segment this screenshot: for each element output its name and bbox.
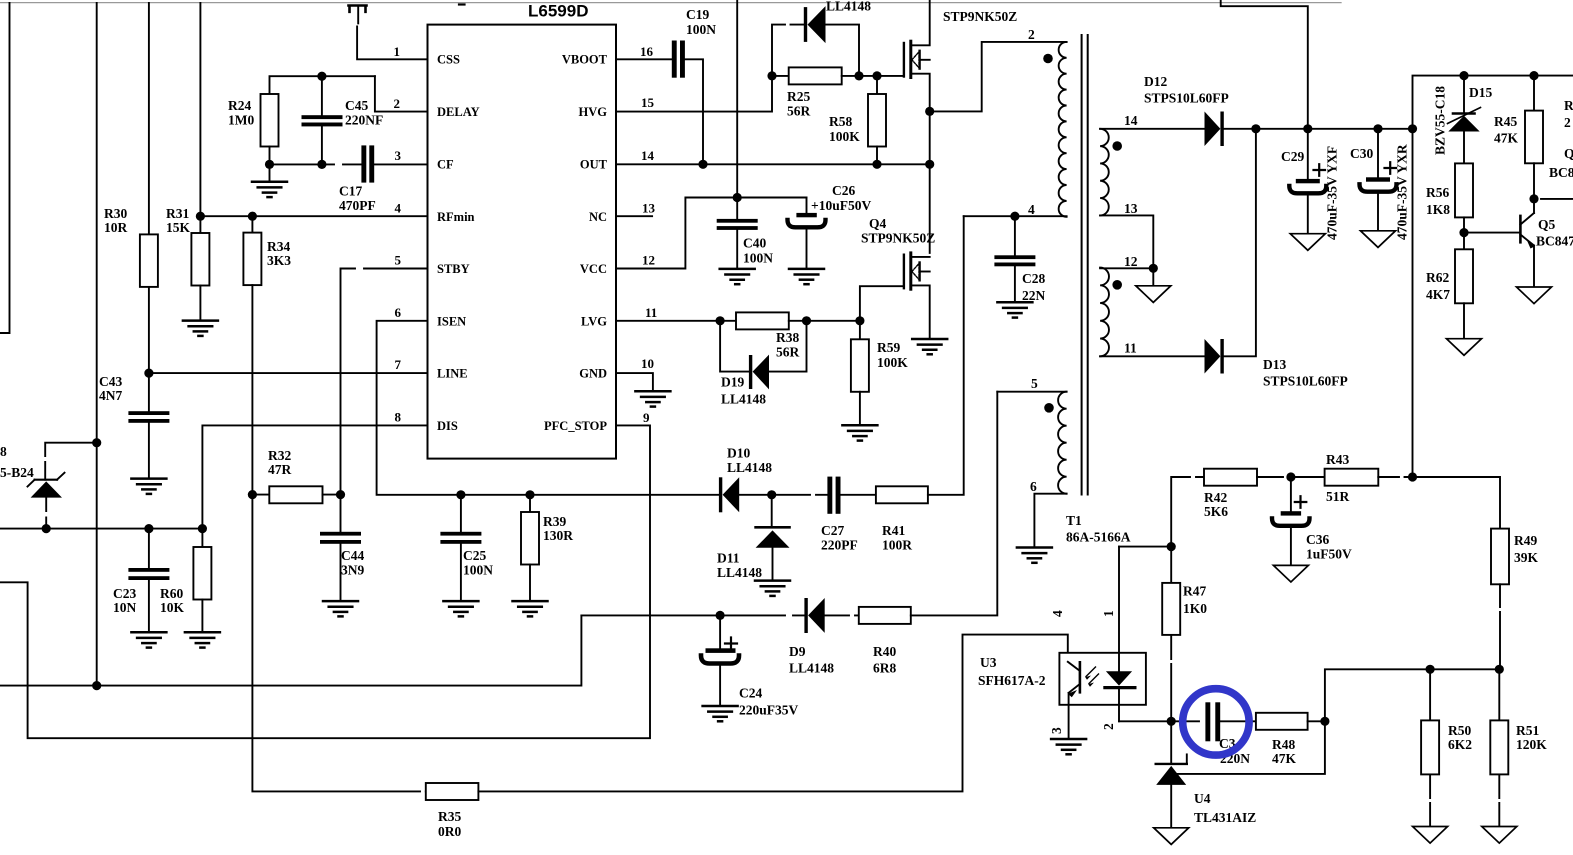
ground C40: [720, 269, 755, 284]
svg-text:13: 13: [642, 201, 656, 216]
svg-text:OUT: OUT: [580, 158, 608, 172]
diode D19: [720, 321, 806, 407]
resistor R60: [160, 529, 211, 632]
svg-text:DIS: DIS: [437, 419, 458, 433]
svg-text:R45: R45: [1494, 114, 1517, 129]
capacitor C24 electrolytic: [701, 615, 799, 717]
node junction R32 left: [248, 490, 257, 499]
svg-text:C44: C44: [341, 548, 364, 563]
node junction R58 bottom on OUT: [872, 160, 881, 169]
ground T1 pin 6: [1017, 548, 1052, 563]
svg-text:16: 16: [640, 44, 654, 59]
wire R48 node down to TL431 ref: [1176, 721, 1325, 774]
wire pin 10 GND: [616, 373, 653, 390]
svg-text:220PF: 220PF: [821, 538, 858, 553]
svg-text:C17: C17: [339, 184, 362, 199]
svg-text:100N: 100N: [686, 22, 716, 37]
ground R60: [185, 632, 220, 647]
capacitor C45: [302, 76, 384, 164]
transformer T1 primary winding pins 2-4: [964, 27, 1067, 217]
wire R48 node up to divider rail: [1325, 669, 1499, 721]
svg-text:1K0: 1K0: [1183, 601, 1207, 616]
ground center tap: [1152, 268, 1154, 285]
svg-text:D13: D13: [1263, 357, 1286, 372]
node junction Q5 collector: [1529, 194, 1538, 203]
svg-text:C36: C36: [1306, 532, 1329, 547]
resistor R62: [1426, 233, 1473, 338]
svg-text:U4: U4: [1194, 791, 1211, 806]
IC U1 right pin names: [544, 53, 608, 434]
node junction R38 right: [802, 316, 811, 325]
node junction zener tap on bus B: [92, 438, 101, 447]
wire net y=528.6 (exits left edge): [0, 528, 202, 530]
wire pin 7 LINE: [149, 372, 428, 374]
svg-text:R31: R31: [166, 206, 189, 221]
capacitor C43: [99, 373, 169, 477]
wire pin 11 LVG: [616, 320, 736, 322]
zener diode ZMM55-B24 (cut at left edge): [0, 443, 97, 529]
svg-text:14: 14: [1124, 113, 1138, 128]
svg-text:STPS10L60FP: STPS10L60FP: [1263, 374, 1348, 389]
transformer T1 secondary winding pins 14-13: [1100, 113, 1204, 268]
svg-text:R48: R48: [1272, 737, 1295, 752]
node junction R42/R47: [1167, 542, 1176, 551]
svg-text:3: 3: [395, 148, 402, 163]
svg-text:T1: T1: [1066, 513, 1082, 528]
svg-text:6: 6: [395, 305, 402, 320]
node junction C19 drop on OUT: [698, 160, 707, 169]
node junction RFmin pin4: [196, 212, 205, 221]
svg-text:STBY: STBY: [437, 262, 470, 276]
svg-text:1M0: 1M0: [228, 113, 254, 128]
ground R24 C45: [269, 164, 271, 180]
svg-text:BC86: BC86: [1549, 165, 1573, 180]
svg-text:1K8: 1K8: [1426, 202, 1450, 217]
IC U1 left pin names: [437, 53, 480, 434]
svg-text:R41: R41: [882, 523, 905, 538]
wire DELAY corner to pin 2: [375, 76, 428, 111]
svg-text:56R: 56R: [787, 104, 811, 119]
ground C44: [323, 601, 358, 616]
svg-text:22N: 22N: [1022, 288, 1046, 303]
svg-text:8: 8: [395, 410, 402, 425]
wire rail drop to R43: [1412, 129, 1414, 477]
svg-text:14: 14: [641, 148, 655, 163]
IC U1 right pin numbers 16-9: [640, 44, 657, 425]
svg-text:47R: 47R: [268, 462, 292, 477]
svg-text:STP9NK50Z: STP9NK50Z: [861, 231, 935, 246]
svg-text:11: 11: [645, 305, 657, 320]
svg-text:120K: 120K: [1516, 737, 1547, 752]
svg-text:13: 13: [1124, 201, 1138, 216]
svg-text:86A-5166A: 86A-5166A: [1066, 530, 1131, 545]
ground U4: [1154, 828, 1189, 845]
svg-text:100R: 100R: [882, 538, 912, 553]
ground C23: [131, 632, 166, 647]
shunt regulator U4 TL431AIZ: [1156, 721, 1257, 827]
resistor R38: [736, 312, 860, 359]
svg-text:R40: R40: [873, 644, 896, 659]
svg-text:2: 2: [1564, 115, 1571, 130]
resistor R51: [1490, 669, 1547, 825]
node junction C24 top: [716, 611, 725, 620]
node junction rail corner x=1412.5: [1408, 124, 1417, 133]
svg-text:R39: R39: [543, 514, 566, 529]
svg-text:D9: D9: [789, 644, 806, 659]
svg-text:R43: R43: [1326, 452, 1349, 467]
ground IC GND: [635, 391, 670, 406]
svg-text:R60: R60: [160, 586, 183, 601]
svg-text:47K: 47K: [1272, 751, 1297, 766]
resistor R34: [243, 216, 291, 494]
svg-text:220uF35V: 220uF35V: [739, 703, 799, 718]
svg-text:C40: C40: [743, 236, 766, 251]
svg-text:LINE: LINE: [437, 367, 468, 381]
node junction C29: [1303, 124, 1312, 133]
resistor R24: [228, 76, 375, 164]
svg-text:Q: Q: [1564, 146, 1573, 161]
resistor R43: [1291, 452, 1413, 504]
svg-text:R24: R24: [228, 98, 251, 113]
node junction C30: [1373, 124, 1382, 133]
capacitor C26 electrolytic: [788, 183, 872, 268]
wire CF bottom rail: [270, 163, 362, 165]
svg-text:5: 5: [395, 253, 402, 268]
svg-text:11: 11: [1124, 341, 1137, 356]
transistor Q4 MOSFET STP9NK50Z: [860, 216, 935, 338]
wire half bridge vertical: [929, 111, 931, 253]
svg-text:1: 1: [394, 44, 401, 59]
svg-text:D12: D12: [1144, 74, 1167, 89]
wire net y=685.6 (exits left edge): [0, 615, 581, 685]
node junction R43 right: [1408, 472, 1417, 481]
svg-text:R25: R25: [787, 89, 810, 104]
node junction center tap: [1149, 264, 1158, 273]
ground R31: [183, 321, 218, 336]
ground C28: [997, 302, 1032, 317]
svg-text:LVG: LVG: [581, 315, 607, 329]
resistor R42: [1171, 469, 1291, 547]
node junction Q4 gate / R59: [855, 316, 864, 325]
wire pin 12 VCC route: [616, 198, 807, 269]
svg-text:4: 4: [1050, 610, 1065, 617]
svg-text:R: R: [1564, 98, 1573, 113]
svg-text:LL4148: LL4148: [727, 460, 772, 475]
ground R51: [1482, 827, 1517, 844]
resistor R56: [1426, 163, 1473, 232]
capacitor C40: [717, 198, 774, 268]
capacitor C44: [320, 495, 364, 600]
svg-text:10: 10: [641, 356, 654, 371]
svg-text:C25: C25: [463, 548, 486, 563]
wire left bus A (exits left edge): [0, 3, 10, 333]
resistor R30: [104, 206, 158, 287]
svg-text:CSS: CSS: [437, 53, 460, 67]
svg-text:R42: R42: [1204, 490, 1227, 505]
svg-text:R30: R30: [104, 206, 127, 221]
node junction R51 tap: [1495, 665, 1504, 674]
svg-text:C28: C28: [1022, 271, 1045, 286]
svg-text:STP9NK50Z: STP9NK50Z: [943, 9, 1017, 24]
svg-text:3: 3: [1049, 727, 1064, 734]
svg-text:C29: C29: [1281, 149, 1304, 164]
svg-text:C30: C30: [1350, 146, 1373, 161]
capacitor C27: [772, 477, 876, 553]
ground C25: [443, 601, 478, 616]
diode D9: [720, 598, 859, 676]
node junction C45 bottom: [317, 160, 326, 169]
resistor R25: [772, 67, 904, 118]
svg-text:R56: R56: [1426, 185, 1449, 200]
svg-text:PFC_STOP: PFC_STOP: [544, 419, 607, 433]
svg-text:12: 12: [1124, 254, 1138, 269]
svg-text:100K: 100K: [829, 129, 860, 144]
node junction R39 top: [525, 490, 534, 499]
transistor Q5 BC847: [1464, 199, 1573, 286]
svg-text:R35: R35: [438, 809, 461, 824]
diode D10: [719, 446, 772, 513]
resistor R47: [1162, 547, 1207, 722]
svg-text:10N: 10N: [113, 600, 137, 615]
transformer T1 label: [1066, 513, 1131, 545]
svg-text:39K: 39K: [1514, 550, 1539, 565]
ground R39: [513, 601, 548, 616]
optocoupler U3 phototransistor: [1068, 662, 1099, 738]
node junction half-bridge on OUT: [925, 160, 934, 169]
node junction R34 top: [248, 212, 257, 221]
capacitor C circled 220N: [1171, 702, 1256, 766]
wire opto pin1 to R42: [1119, 546, 1171, 548]
capacitor C36 electrolytic: [1272, 477, 1352, 565]
transformer T1 core: [1082, 35, 1088, 495]
svg-text:R58: R58: [829, 114, 852, 129]
node junction R45 tap: [1529, 71, 1538, 80]
node junction C23 top: [144, 524, 153, 533]
wire pin 8 DIS: [202, 425, 427, 528]
annotation blue circle: [1183, 689, 1249, 755]
svg-text:U3: U3: [980, 655, 997, 670]
svg-text:470uF-35V YXF: 470uF-35V YXF: [1325, 146, 1340, 240]
node junction R25 left: [767, 71, 776, 80]
node junction R58 top: [872, 71, 881, 80]
resistor R58: [829, 76, 886, 164]
ground C24: [703, 706, 738, 721]
svg-text:6R8: 6R8: [873, 661, 896, 676]
tiny top mark: [459, 3, 465, 5]
node junction R48 right: [1320, 717, 1329, 726]
svg-text:4K7: 4K7: [1426, 287, 1450, 302]
svg-text:C26: C26: [832, 183, 855, 198]
wire pin 13 NC stub: [616, 215, 652, 217]
wire pin 1 CSS: [357, 26, 427, 59]
svg-text:L6599D: L6599D: [528, 2, 588, 21]
resistor R48: [1256, 713, 1325, 766]
wire pin 5 STBY: [341, 269, 428, 495]
svg-text:1uF50V: 1uF50V: [1306, 547, 1352, 562]
node junction D10/D11/C27: [767, 490, 776, 499]
node junction R50 tap: [1426, 665, 1435, 674]
svg-text:BZV55-C18: BZV55-C18: [1433, 86, 1448, 155]
ground R59: [842, 425, 877, 440]
resistor R35: [426, 635, 1068, 839]
transistor Q3 MOSFET STP9NK50Z (top): [904, 0, 1017, 111]
wire left bus B vertical x=96.7: [96, 3, 98, 686]
node junction D15 tap: [1459, 71, 1468, 80]
svg-text:GND: GND: [579, 367, 607, 381]
svg-text:4: 4: [395, 201, 402, 216]
svg-text:100N: 100N: [463, 563, 493, 578]
svg-text:C43: C43: [99, 374, 122, 389]
node junction R38 left: [716, 316, 725, 325]
capacitor C23: [113, 529, 169, 632]
svg-text:10R: 10R: [104, 220, 128, 235]
svg-text:D11: D11: [717, 551, 740, 566]
svg-text:56R: 56R: [776, 345, 800, 360]
diode D12 STPS10L60FP: [1144, 74, 1256, 146]
scan border artifact top: [0, 2, 1341, 4]
resistor R59: [851, 321, 908, 424]
wire vertical x=148.9 top to R30: [148, 3, 150, 234]
resistor R45: [1494, 76, 1543, 199]
wire R30 bottom to LINE node: [148, 287, 150, 373]
svg-text:470PF: 470PF: [339, 198, 376, 213]
diode LL4148 top (cut): [772, 0, 871, 76]
svg-text:3K3: 3K3: [267, 253, 291, 268]
svg-text:4N7: 4N7: [99, 388, 122, 403]
svg-text:9: 9: [643, 410, 650, 425]
node junction C36 top: [1286, 472, 1295, 481]
svg-text:VCC: VCC: [580, 262, 607, 276]
node junction C45 top: [317, 72, 326, 81]
wire pin 9 PFC_STOP long route: [0, 425, 650, 738]
resistor R40: [859, 392, 998, 676]
resistor R41: [876, 216, 964, 552]
node junction source to winding: [925, 107, 934, 116]
svg-text:BC847: BC847: [1536, 234, 1573, 249]
svg-text:RFmin: RFmin: [437, 210, 475, 224]
svg-text:C45: C45: [345, 98, 368, 113]
svg-text:LL4148: LL4148: [721, 392, 766, 407]
ground U3 pin 3: [1051, 739, 1086, 754]
ground C36: [1273, 565, 1308, 582]
wire vertical from top edge x=737.2: [736, 0, 738, 198]
resistor R50: [1421, 669, 1472, 825]
svg-text:470uF-35V YXR: 470uF-35V YXR: [1395, 144, 1410, 240]
svg-text:100N: 100N: [743, 251, 773, 266]
node junction bus B to bottom line: [92, 681, 101, 690]
ground R62: [1447, 339, 1482, 356]
node junction R24 bottom: [265, 160, 274, 169]
svg-text:C23: C23: [113, 586, 136, 601]
svg-text:10K: 10K: [160, 600, 185, 615]
svg-text:7: 7: [395, 357, 402, 372]
svg-text:R50: R50: [1448, 723, 1471, 738]
wire pin 4 RFmin: [200, 215, 427, 217]
node junction C40 top: [733, 193, 742, 202]
wire stub to right edge: [1541, 198, 1573, 200]
node junction C28 / T1 pin 4: [1010, 212, 1019, 221]
svg-text:LL4148: LL4148: [789, 661, 834, 676]
node junction rectifier output: [1251, 124, 1260, 133]
optocoupler U3 pin digits rotated: [1049, 610, 1116, 734]
wire secondary rail y=128.8: [1256, 128, 1413, 130]
node junction Q5 base: [1459, 228, 1468, 237]
svg-text:+10uF50V: +10uF50V: [811, 198, 871, 213]
diode D13 STPS10L60FP: [1205, 129, 1348, 389]
svg-text:6K2: 6K2: [1448, 737, 1472, 752]
svg-text:2: 2: [1028, 27, 1035, 42]
node junction DIS / R60: [198, 524, 207, 533]
svg-text:SFH617A-2: SFH617A-2: [978, 673, 1046, 688]
svg-text:Q5: Q5: [1538, 217, 1556, 232]
svg-text:220NF: 220NF: [345, 113, 383, 128]
svg-text:5K6: 5K6: [1204, 504, 1228, 519]
svg-text:5: 5: [1031, 376, 1038, 391]
svg-text:8: 8: [0, 444, 7, 459]
svg-text:VBOOT: VBOOT: [562, 53, 608, 67]
IC U1 L6599D body: [428, 25, 617, 459]
svg-text:R59: R59: [877, 340, 900, 355]
svg-text:Q4: Q4: [869, 216, 887, 231]
svg-text:0R0: 0R0: [438, 824, 461, 839]
svg-text:130R: 130R: [543, 528, 573, 543]
svg-text:LL4148: LL4148: [826, 0, 871, 14]
resistor R39: [521, 495, 573, 600]
ground C26: [789, 269, 824, 284]
ground D11: [755, 581, 790, 596]
svg-text:3N9: 3N9: [341, 563, 364, 578]
diode D11: [717, 495, 790, 580]
capacitor C19: [616, 7, 716, 164]
wire R43 node to R49: [1413, 477, 1501, 529]
svg-text:15: 15: [641, 95, 655, 110]
svg-text:HVG: HVG: [579, 105, 608, 119]
svg-text:D19: D19: [721, 375, 744, 390]
svg-text:DELAY: DELAY: [437, 105, 480, 119]
svg-text:R38: R38: [776, 330, 799, 345]
transformer T1 aux winding pins 5-6: [997, 376, 1066, 546]
svg-text:1: 1: [1101, 610, 1116, 617]
svg-text:LL4148: LL4148: [717, 565, 762, 580]
svg-text:51R: 51R: [1326, 489, 1350, 504]
svg-text:2: 2: [1101, 723, 1116, 730]
svg-text:TL431AIZ: TL431AIZ: [1194, 810, 1256, 825]
transformer T1 secondary winding pins 12-11: [1100, 254, 1204, 356]
capacitor C30 electrolytic: [1350, 129, 1397, 230]
wire pin 14 OUT: [616, 163, 930, 165]
svg-text:5-B24: 5-B24: [0, 465, 34, 480]
svg-text:4: 4: [1028, 202, 1035, 217]
resistor R32: [252, 448, 340, 503]
svg-text:2: 2: [394, 96, 401, 111]
svg-text:R47: R47: [1183, 584, 1206, 599]
zener diode D15 BZV55-C18: [1448, 76, 1493, 164]
svg-text:R32: R32: [268, 448, 291, 463]
capacitor C28: [994, 216, 1045, 303]
svg-text:100K: 100K: [877, 355, 908, 370]
svg-text:R34: R34: [267, 239, 290, 254]
ground R50: [1413, 827, 1448, 844]
svg-text:6: 6: [1030, 479, 1037, 494]
ground C29: [1290, 234, 1325, 251]
wire D9 row: [581, 614, 720, 616]
svg-text:15K: 15K: [166, 220, 191, 235]
wire pin 15 HVG: [616, 76, 772, 112]
capacitor C29 electrolytic: [1281, 129, 1326, 233]
capacitor C17: [339, 145, 428, 213]
svg-text:12: 12: [642, 253, 655, 268]
node junction TL431 cathode: [1167, 717, 1176, 726]
